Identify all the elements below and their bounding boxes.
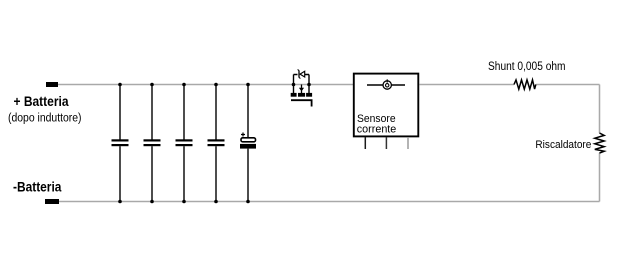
- node C2 top junction: [150, 83, 154, 87]
- diode D1 body diode (zener) of Q1: [298, 70, 305, 79]
- svg-text:Riscaldatore: Riscaldatore: [535, 139, 591, 151]
- capacitor C2: [144, 85, 161, 202]
- node C5 bottom junction: [246, 200, 250, 204]
- Q1 pad 1: [291, 93, 297, 97]
- capacitor C3: [176, 85, 193, 202]
- node C1 top junction: [118, 83, 122, 87]
- node C3 bottom junction: [182, 200, 186, 204]
- wire bottom bus (- rail): [59, 201, 600, 203]
- node C5 top junction: [246, 83, 250, 87]
- svg-text:(dopo induttore): (dopo induttore): [8, 113, 82, 125]
- U1 sensing toroid: [383, 79, 391, 89]
- U1 pin 3: [407, 137, 409, 149]
- U1 pin 2: [385, 137, 387, 149]
- transistor Q1 MOSFET package: [294, 75, 310, 94]
- node C4 top junction: [214, 83, 218, 87]
- node C2 bottom junction: [150, 200, 154, 204]
- node C1 bottom junction: [118, 200, 122, 204]
- svg-text:+ Batteria: + Batteria: [14, 94, 69, 109]
- Q1 pad 2: [298, 93, 305, 97]
- wire top bus (+ rail): [58, 84, 600, 86]
- terminal - Batteria: [45, 199, 59, 204]
- node C4 bottom junction: [214, 200, 218, 204]
- resistor R2 riscaldatore: [595, 133, 604, 153]
- node Q1 source junction: [307, 83, 311, 87]
- Q1 middle arrow (substrate): [299, 85, 304, 94]
- capacitor C5 electrolytic: [240, 85, 256, 202]
- node Q1 drain junction: [292, 83, 296, 87]
- capacitor C1: [112, 85, 129, 202]
- capacitor C4: [208, 85, 225, 202]
- svg-text:-Batteria: -Batteria: [13, 180, 62, 195]
- U1 internal conductor: [367, 84, 405, 86]
- U1 pin 1: [364, 137, 366, 149]
- svg-text:Shunt 0,005 ohm: Shunt 0,005 ohm: [488, 61, 566, 73]
- resistor R1 shunt: [514, 80, 536, 89]
- Q1 gate lead: [291, 100, 312, 106]
- node C3 top junction: [182, 83, 186, 87]
- U1 label Sensore corrente: [357, 113, 397, 136]
- Q1 pad 3: [306, 93, 312, 97]
- terminal + Batteria: [46, 82, 58, 87]
- wire right bus (vertical): [599, 85, 601, 202]
- svg-text:corrente: corrente: [357, 123, 397, 135]
- current sensor U1 box: [354, 74, 419, 137]
